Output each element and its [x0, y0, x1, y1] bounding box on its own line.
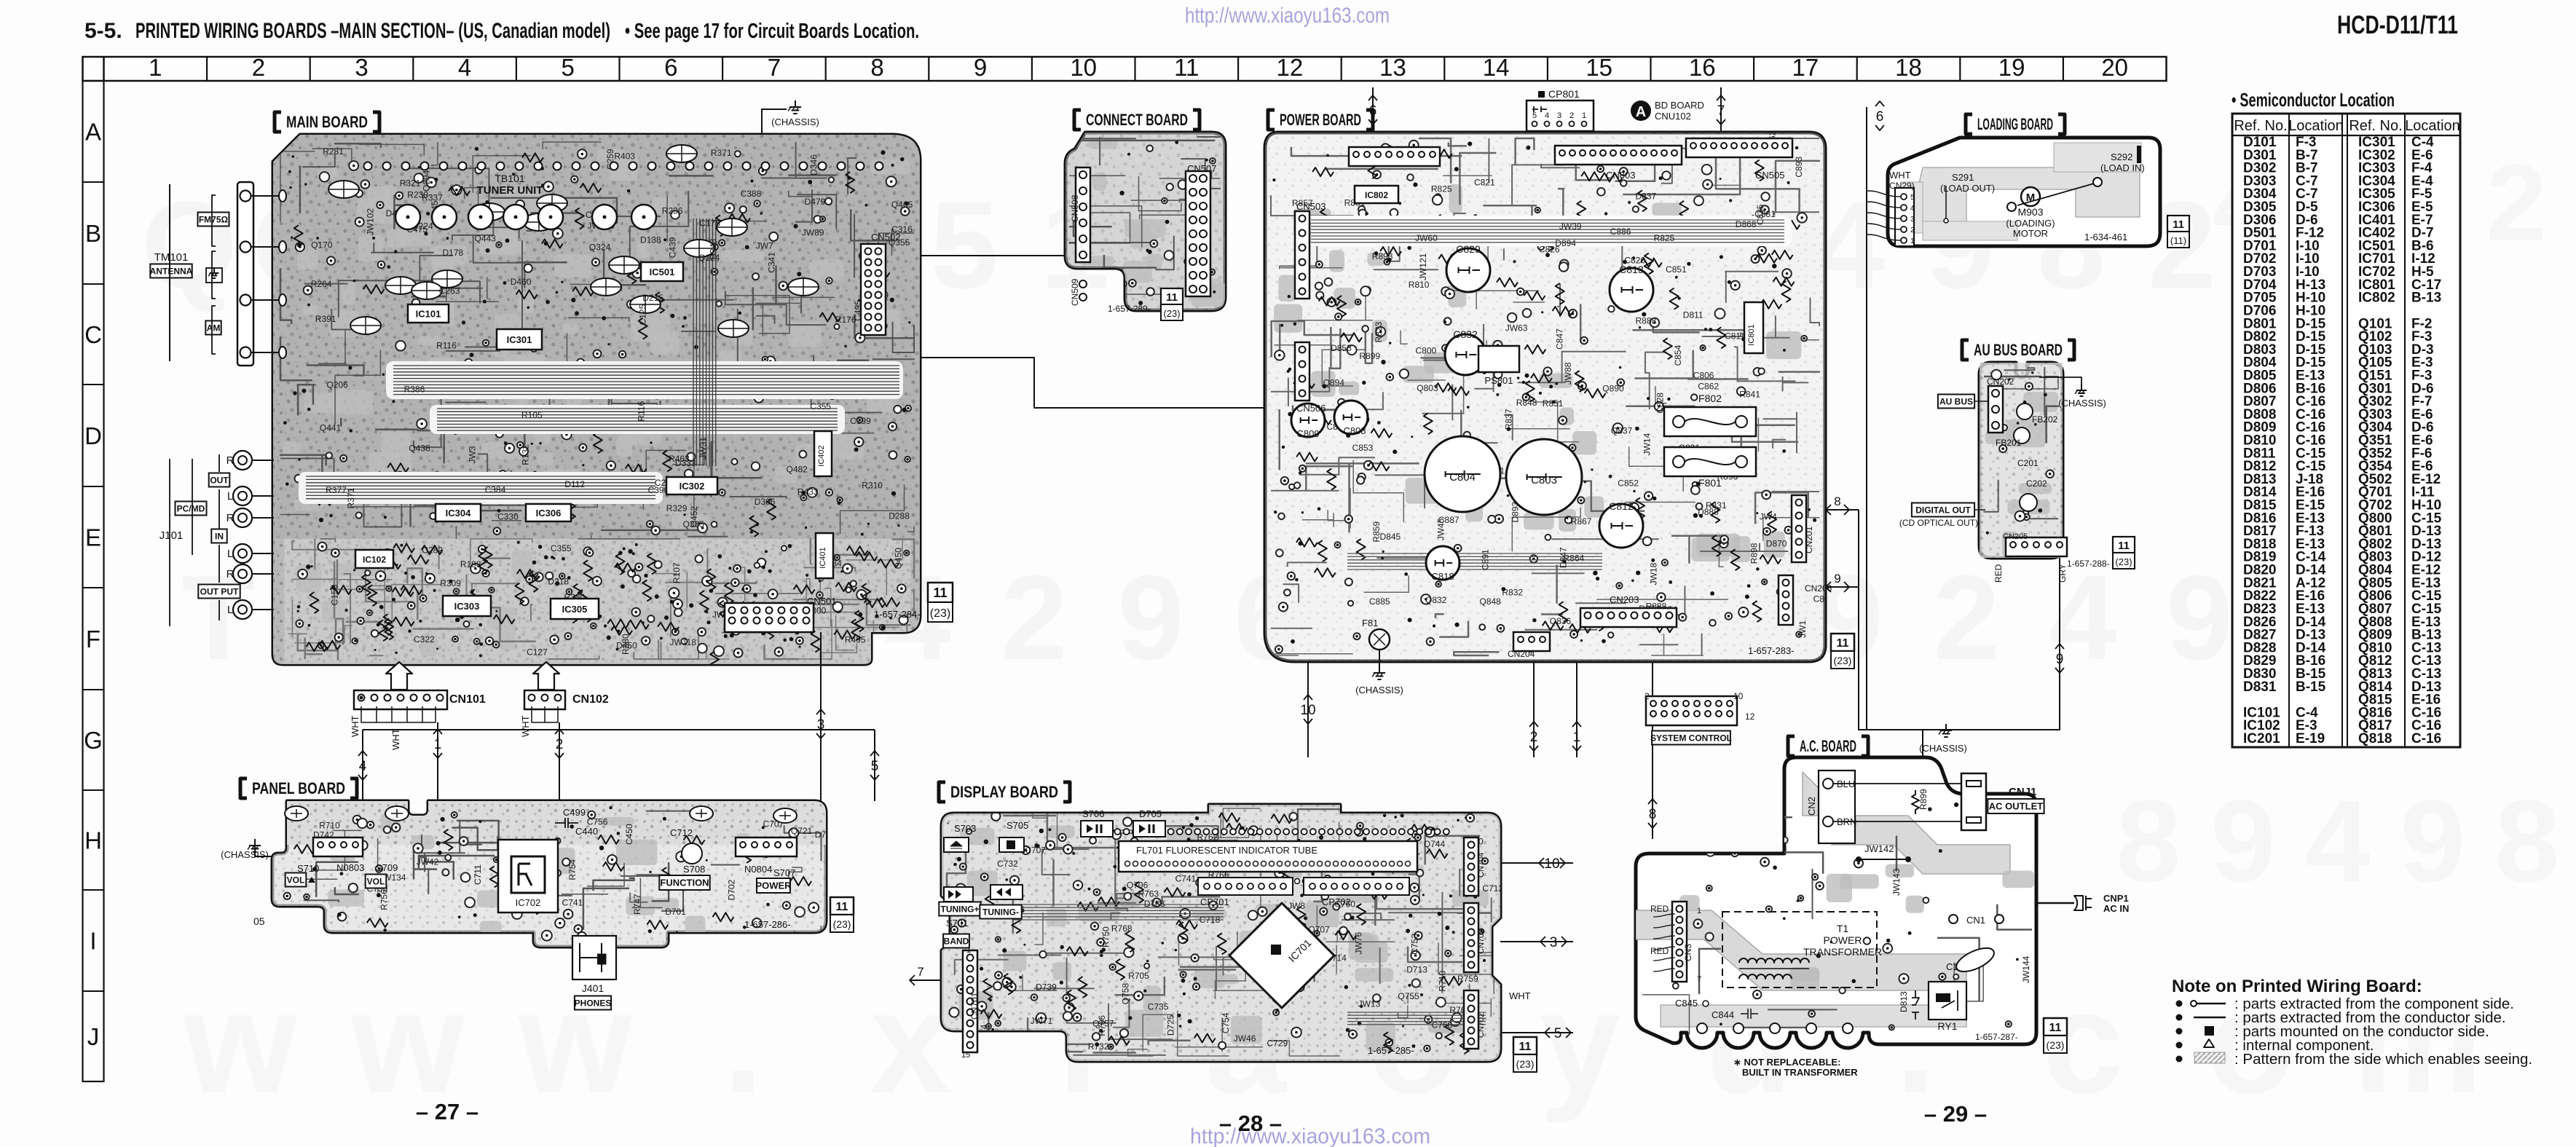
svg-text:8: 8: [870, 54, 883, 81]
svg-text:D138: D138: [640, 235, 661, 245]
svg-text:2: 2: [1530, 730, 1538, 745]
connector CN803 top pin row: [1555, 146, 1682, 165]
svg-text:x: x: [870, 961, 950, 1124]
svg-text:C: C: [84, 321, 102, 348]
svg-text:S705: S705: [1007, 820, 1028, 831]
svg-text:JW13: JW13: [1358, 999, 1381, 1009]
svg-text:C732: C732: [997, 859, 1018, 869]
transistor on au bus board: [2020, 494, 2037, 511]
svg-text:D813: D813: [1899, 991, 1909, 1012]
jack group guide lines: [169, 459, 170, 626]
svg-text:S703: S703: [954, 823, 976, 834]
svg-text:R105: R105: [521, 410, 543, 420]
svg-text:5: 5: [1554, 1026, 1562, 1041]
svg-text:C851: C851: [1666, 264, 1687, 275]
transformer secondary coil: [1739, 974, 1792, 979]
connector CN205: [2006, 537, 2067, 556]
svg-text:19: 19: [1998, 54, 2025, 81]
svg-text:D870: D870: [1766, 539, 1787, 549]
svg-text:CN101: CN101: [449, 693, 486, 706]
svg-text:C806: C806: [1693, 370, 1714, 380]
svg-text:D450: D450: [616, 641, 637, 651]
svg-text:R837: R837: [1503, 409, 1513, 430]
svg-text:D713: D713: [1406, 965, 1427, 975]
power cord CNP1 AC IN: [2036, 902, 2074, 904]
svg-text:D847: D847: [1559, 547, 1569, 568]
svg-text:IC402: IC402: [817, 445, 826, 466]
IC501: [641, 262, 683, 281]
svg-text:y: y: [1540, 961, 1620, 1124]
svg-text:w: w: [183, 961, 297, 1124]
svg-text:E-19: E-19: [2296, 731, 2325, 746]
switch rew box: [990, 885, 1023, 899]
svg-text:CN508: CN508: [1070, 194, 1080, 222]
svg-text:R899: R899: [1359, 351, 1380, 361]
svg-text:.: .: [722, 961, 763, 1124]
svg-text:JW8: JW8: [1288, 901, 1305, 911]
svg-text:IC401: IC401: [819, 547, 827, 568]
svg-text:JW46: JW46: [1234, 1033, 1256, 1044]
capacitor C812: [1599, 504, 1643, 548]
loading harness hooks: [1867, 191, 1901, 197]
connect board PCB outline: [1066, 133, 1225, 310]
svg-text:10: 10: [1070, 54, 1097, 81]
svg-text:6: 6: [664, 54, 677, 81]
svg-text:Q818: Q818: [2358, 731, 2392, 746]
svg-text:JW60: JW60: [1415, 233, 1438, 243]
IC302: [666, 477, 717, 494]
svg-text:C886: C886: [1610, 226, 1631, 237]
svg-text:(11): (11): [2170, 235, 2186, 246]
svg-text:B-15: B-15: [2296, 679, 2326, 695]
connector CN508: [1076, 167, 1090, 262]
horizontal wire bus under main board: [363, 729, 875, 730]
svg-text:2: 2: [556, 737, 564, 752]
svg-text:S707: S707: [773, 867, 795, 878]
svg-text:C711: C711: [473, 864, 483, 885]
svg-text:5: 5: [1532, 111, 1537, 120]
svg-text:D845: D845: [1380, 532, 1401, 542]
svg-text:R893: R893: [1372, 251, 1393, 261]
capacitor C803: [1506, 439, 1582, 515]
svg-text:2: 2: [2486, 141, 2546, 264]
svg-text:D738: D738: [1144, 899, 1165, 909]
capacitor C804: [1425, 436, 1500, 512]
svg-text:TUNING-: TUNING-: [982, 907, 1019, 917]
svg-text:R867: R867: [1571, 516, 1592, 527]
svg-text:CNJ1: CNJ1: [2009, 786, 2036, 798]
svg-text:JW88: JW88: [1563, 362, 1573, 385]
svg-text:D831: D831: [2243, 679, 2277, 695]
svg-text:R495: R495: [845, 635, 866, 645]
svg-text:Q848: Q848: [1480, 596, 1502, 607]
svg-text:R768: R768: [1111, 923, 1133, 934]
svg-text:E: E: [85, 524, 101, 551]
svg-text:IC702: IC702: [516, 897, 541, 908]
svg-text:Ref. No.: Ref. No.: [2234, 118, 2287, 134]
svg-text:C741: C741: [562, 897, 583, 907]
svg-text:C818: C818: [1431, 571, 1454, 582]
svg-text:JW42: JW42: [417, 857, 439, 867]
transformer primary coil: [1739, 958, 1809, 963]
svg-text:CN506: CN506: [1296, 403, 1326, 414]
connector CN101: [354, 690, 447, 709]
svg-text:R371: R371: [346, 487, 356, 508]
svg-text:RED: RED: [1993, 564, 2004, 583]
svg-text:CN3: CN3: [1683, 944, 1693, 961]
svg-text:2: 2: [1933, 551, 2000, 685]
svg-text:15: 15: [961, 1051, 970, 1060]
fuse F801: [1664, 447, 1756, 476]
svg-text:1-657-288-: 1-657-288-: [2067, 559, 2110, 569]
svg-text:R899: R899: [1918, 789, 1929, 810]
label OUT PUT: [198, 585, 240, 599]
svg-text:R236: R236: [662, 206, 683, 216]
svg-text:R132: R132: [520, 444, 530, 465]
svg-text:CN803: CN803: [1606, 170, 1635, 181]
svg-text:C355: C355: [810, 401, 831, 411]
svg-text:C718: C718: [1200, 915, 1221, 925]
chassis ground below power board: [1379, 650, 1380, 666]
svg-text:Q721: Q721: [791, 826, 813, 836]
svg-text:A: A: [1636, 104, 1646, 120]
IC101: [408, 304, 449, 323]
sheet ref box 11/23 ac board: [2044, 1018, 2067, 1036]
svg-text:(23): (23): [2047, 1039, 2065, 1051]
svg-text:R264: R264: [311, 279, 332, 289]
svg-text:8: 8: [2495, 776, 2560, 906]
diode D813: [1912, 990, 1919, 1020]
svg-text:CNU102: CNU102: [1655, 111, 1691, 122]
svg-text:4: 4: [359, 759, 367, 774]
svg-text:1-634-461: 1-634-461: [2084, 232, 2127, 243]
svg-text:R825: R825: [1431, 184, 1452, 194]
capacitor C813: [1610, 268, 1653, 312]
switch stop box: [999, 837, 1024, 852]
relay RY1: [1929, 982, 1966, 1020]
connector CN509: [1079, 280, 1087, 288]
connector row CP702: [1304, 878, 1409, 895]
svg-text:Q294: Q294: [422, 170, 432, 192]
grid frame row letter column: [83, 81, 104, 1081]
svg-text:C439: C439: [667, 237, 677, 258]
svg-text:D739: D739: [1036, 982, 1057, 993]
svg-text:R391: R391: [315, 314, 336, 324]
svg-text:1: 1: [1573, 730, 1581, 745]
power transformer T1 dashed outline: [1722, 912, 1877, 988]
svg-text:C809: C809: [1296, 428, 1319, 439]
svg-text:1-657-289-: 1-657-289-: [1108, 304, 1151, 314]
svg-text:D868: D868: [1736, 219, 1757, 229]
wire 4 down to panel board: [362, 730, 363, 801]
IC802 power board: [1355, 186, 1398, 203]
svg-text:5-5.: 5-5.: [84, 19, 122, 43]
svg-text:CN702: CN702: [1477, 1013, 1486, 1038]
motor belt to pulley: [2017, 184, 2094, 205]
wires CN2 to AC outlet: [1833, 783, 1969, 784]
svg-text:: Pattern from the side which: : Pattern from the side which enables se…: [2234, 1051, 2532, 1068]
svg-text:FUNCTION: FUNCTION: [660, 878, 709, 888]
svg-text:w: w: [518, 961, 632, 1124]
svg-text:FL701 FLUORESCENT INDICATOR: FL701 FLUORESCENT INDICATOR TUBE: [1136, 845, 1317, 856]
svg-text:IC305: IC305: [562, 604, 588, 615]
svg-text:4: 4: [2306, 776, 2371, 906]
svg-text:05: 05: [253, 915, 265, 927]
svg-text:C263: C263: [439, 286, 460, 296]
svg-text:Q482: Q482: [787, 465, 808, 475]
svg-text:DISPLAY BOARD: DISPLAY BOARD: [950, 783, 1058, 801]
connector CN2 with BLU BRN leads: [1819, 770, 1855, 843]
svg-text:C-16: C-16: [2411, 731, 2441, 746]
svg-text:Q450: Q450: [893, 548, 903, 569]
svg-text:VOL: VOL: [367, 876, 385, 886]
system control label: [1652, 731, 1730, 745]
svg-text:D479: D479: [805, 197, 826, 207]
wire chassis stub top of main board: [762, 109, 787, 135]
wire 6 into power board top: [1372, 87, 1374, 133]
svg-text:CN505: CN505: [1755, 170, 1784, 181]
svg-text:TUNER UNIT: TUNER UNIT: [477, 184, 543, 197]
svg-text:D: D: [84, 422, 102, 449]
svg-text:(23): (23): [1834, 655, 1852, 666]
svg-text:IC303: IC303: [454, 601, 480, 612]
svg-text:9: 9: [2400, 776, 2465, 906]
svg-text:D306: D306: [755, 497, 776, 507]
svg-text:MOTOR: MOTOR: [2013, 228, 2048, 239]
svg-text:IC302: IC302: [680, 481, 705, 492]
svg-text:H: H: [84, 827, 102, 854]
svg-text:Q324: Q324: [589, 243, 611, 253]
svg-text:R898: R898: [1749, 543, 1760, 564]
svg-text:C330: C330: [497, 512, 519, 522]
svg-text:Q443: Q443: [475, 234, 497, 244]
ferrite bead FB202: [2017, 403, 2033, 419]
svg-text:(23): (23): [930, 607, 950, 620]
svg-text:1: 1: [1910, 237, 1915, 245]
connector CN507: [1186, 171, 1210, 296]
svg-text:C832: C832: [1453, 328, 1478, 340]
svg-text:Q465: Q465: [891, 200, 913, 210]
svg-text:Q744: Q744: [1424, 839, 1446, 849]
svg-text:R841: R841: [1739, 390, 1760, 400]
connector CN204: [1513, 632, 1550, 651]
svg-text:C812: C812: [1609, 500, 1634, 512]
svg-text:WHT: WHT: [1509, 990, 1531, 1001]
svg-text:C893: C893: [1794, 157, 1804, 178]
svg-text:Q890: Q890: [1602, 384, 1624, 394]
svg-text:Location: Location: [2405, 118, 2460, 134]
label OUT: [209, 473, 230, 487]
sheet ref box 11/23 display board: [1513, 1037, 1537, 1055]
sheet ref box 11/23 connect board: [1161, 288, 1183, 304]
svg-text:JW76: JW76: [1353, 932, 1363, 955]
connector NO804: [736, 837, 797, 856]
svg-text:8: 8: [2116, 776, 2181, 906]
svg-text:(CHASSIS): (CHASSIS): [1355, 685, 1403, 695]
svg-text:17: 17: [1792, 54, 1819, 81]
svg-text:8: 8: [1649, 807, 1657, 822]
svg-text:18: 18: [1895, 54, 1922, 81]
svg-text:D701: D701: [665, 907, 686, 917]
svg-text:C768: C768: [1432, 1020, 1453, 1030]
svg-text:TM101: TM101: [154, 251, 189, 264]
svg-text:J401: J401: [582, 982, 604, 994]
svg-text:FB201: FB201: [1996, 438, 2022, 448]
switch ff box: [944, 887, 973, 902]
svg-text:R750: R750: [1100, 926, 1111, 947]
svg-text:7: 7: [768, 54, 781, 81]
svg-text:DIGITAL OUT: DIGITAL OUT: [1915, 505, 1971, 515]
fuse F802: [1664, 407, 1756, 436]
svg-text:WHT: WHT: [350, 715, 361, 737]
svg-text:G: G: [84, 727, 103, 754]
svg-text:Q: Q: [141, 176, 237, 315]
svg-text:2: 2: [252, 54, 265, 81]
svg-text:CN507: CN507: [1187, 163, 1216, 174]
tuner variable capacitor circles: [395, 205, 420, 229]
svg-text:BD BOARD: BD BOARD: [1655, 100, 1704, 111]
connector CN702: [1464, 990, 1478, 1049]
svg-text:http://www.xiaoyu163.com: http://www.xiaoyu163.com: [1185, 4, 1390, 28]
svg-text:10: 10: [1300, 703, 1315, 718]
grounding point E81: [1369, 629, 1390, 650]
svg-text:3: 3: [355, 54, 368, 81]
label BAND: [943, 934, 969, 948]
svg-text:IC802: IC802: [2358, 291, 2395, 306]
svg-text:HCD-D11/T11: HCD-D11/T11: [2337, 11, 2458, 39]
svg-text:BUILT IN TRANSFORMER: BUILT IN TRANSFORMER: [1742, 1067, 1858, 1078]
connector CN505: [1686, 138, 1792, 157]
svg-text:IC306: IC306: [536, 508, 562, 519]
svg-text:R107: R107: [671, 562, 682, 583]
svg-text:C753: C753: [1409, 934, 1419, 955]
svg-text:IC201: IC201: [2243, 731, 2280, 746]
svg-text:R310: R310: [862, 480, 883, 490]
svg-text:1: 1: [149, 54, 162, 81]
svg-text:R810: R810: [1409, 280, 1430, 290]
svg-text:20: 20: [2101, 54, 2128, 81]
svg-text:C202: C202: [2026, 478, 2047, 489]
connector NO803: [313, 837, 363, 856]
svg-text:D346: D346: [808, 154, 819, 176]
display pad row below FL701: [1207, 879, 1212, 884]
svg-text:9: 9: [1117, 551, 1184, 685]
svg-text:M903: M903: [2017, 206, 2043, 218]
component CP801 above power board: [1527, 100, 1594, 131]
svg-text:9: 9: [2211, 776, 2276, 906]
svg-text:1-657-284-: 1-657-284-: [874, 609, 921, 620]
main board copper pattern texture: [273, 135, 920, 664]
panel mounting pads: [285, 806, 308, 821]
connector CN501: [725, 603, 814, 632]
hollow arrow up left: [386, 662, 412, 690]
svg-text:JW63: JW63: [1505, 323, 1528, 333]
svg-text:TUNING+: TUNING+: [940, 904, 979, 914]
svg-text:C127: C127: [527, 647, 548, 657]
svg-text:9: 9: [974, 54, 987, 81]
svg-text:C499: C499: [563, 807, 586, 818]
wire 9 stub right of power board: [1825, 586, 1859, 588]
svg-text:C322: C322: [414, 634, 435, 645]
svg-text:9: 9: [2056, 652, 2064, 667]
panel board copper texture: [272, 801, 826, 845]
svg-text:C440: C440: [575, 826, 598, 837]
svg-text:7: 7: [917, 965, 923, 979]
svg-text:C829: C829: [1456, 243, 1481, 255]
svg-text:PANEL BOARD: PANEL BOARD: [252, 779, 345, 797]
svg-text:R321: R321: [400, 178, 421, 188]
svg-text:R754: R754: [567, 859, 578, 880]
sheet ref box 11/23 power board: [1831, 634, 1854, 651]
capacitor C809: [1291, 403, 1325, 437]
wire CN101 pin1 down to bus: [437, 722, 438, 801]
svg-text:D178: D178: [443, 248, 464, 258]
svg-text:(CHASSIS): (CHASSIS): [2058, 398, 2106, 409]
svg-text:CP801: CP801: [1548, 88, 1580, 100]
svg-text:I: I: [90, 928, 96, 955]
svg-text:FM75Ω: FM75Ω: [199, 214, 229, 224]
svg-text:1-657-283-: 1-657-283-: [1748, 645, 1795, 656]
loading board PCB outline: [1888, 138, 2160, 246]
svg-text:(23): (23): [1163, 308, 1180, 319]
svg-text:Q452: Q452: [689, 506, 699, 528]
ac harness hooks: [1653, 914, 1675, 917]
svg-text:Q438: Q438: [409, 443, 430, 453]
wire main board to connect board upper: [920, 255, 1066, 256]
label IN: [211, 529, 227, 543]
svg-text:N0803: N0803: [336, 862, 364, 873]
svg-text:C852: C852: [1618, 478, 1639, 489]
svg-text:8: 8: [1834, 494, 1840, 508]
connector CN703: [1464, 903, 1478, 972]
connector CN502: [861, 244, 886, 335]
svg-text:J: J: [87, 1023, 100, 1050]
svg-text:– 29 –: – 29 –: [1924, 1101, 1987, 1127]
panel board label: [240, 779, 247, 798]
svg-text:R825: R825: [1654, 233, 1675, 243]
svg-text:A.C. BOARD: A.C. BOARD: [1800, 737, 1856, 755]
svg-text:R851: R851: [1543, 398, 1564, 409]
svg-text:TRANSFORMER: TRANSFORMER: [1803, 946, 1882, 958]
wire 5 down to panel board right: [874, 730, 875, 801]
svg-text:JW3: JW3: [468, 446, 478, 463]
display board label: [939, 782, 945, 802]
svg-text:C845: C845: [1675, 998, 1698, 1009]
svg-text:(23): (23): [833, 918, 851, 930]
wire 3 from main board CN501 down: [820, 632, 822, 801]
svg-text:JW31: JW31: [698, 437, 709, 460]
svg-text:Q758: Q758: [1121, 983, 1131, 1005]
svg-text:FB202: FB202: [2032, 414, 2058, 425]
svg-text:WHT: WHT: [520, 715, 531, 737]
svg-text:1: 1: [1582, 111, 1586, 120]
svg-text:(23): (23): [1516, 1058, 1535, 1070]
svg-text:R116: R116: [436, 341, 457, 351]
svg-text:AM: AM: [207, 323, 221, 333]
IC301: [497, 329, 542, 350]
svg-text:C384: C384: [485, 484, 506, 494]
svg-text:4: 4: [1910, 205, 1915, 213]
label VOL up: [285, 873, 307, 887]
svg-text:Q170: Q170: [311, 240, 333, 251]
connect board label: [1074, 110, 1081, 130]
svg-text:PRINTED WIRING BOARDS –MAIN SE: PRINTED WIRING BOARDS –MAIN SECTION– (US…: [135, 19, 610, 43]
svg-text:10: 10: [1544, 856, 1559, 872]
IC304: [436, 504, 481, 521]
svg-text:S701: S701: [946, 918, 968, 929]
wire antenna terminals to board: [251, 195, 280, 197]
display board routing bus channel: [1012, 904, 1224, 920]
